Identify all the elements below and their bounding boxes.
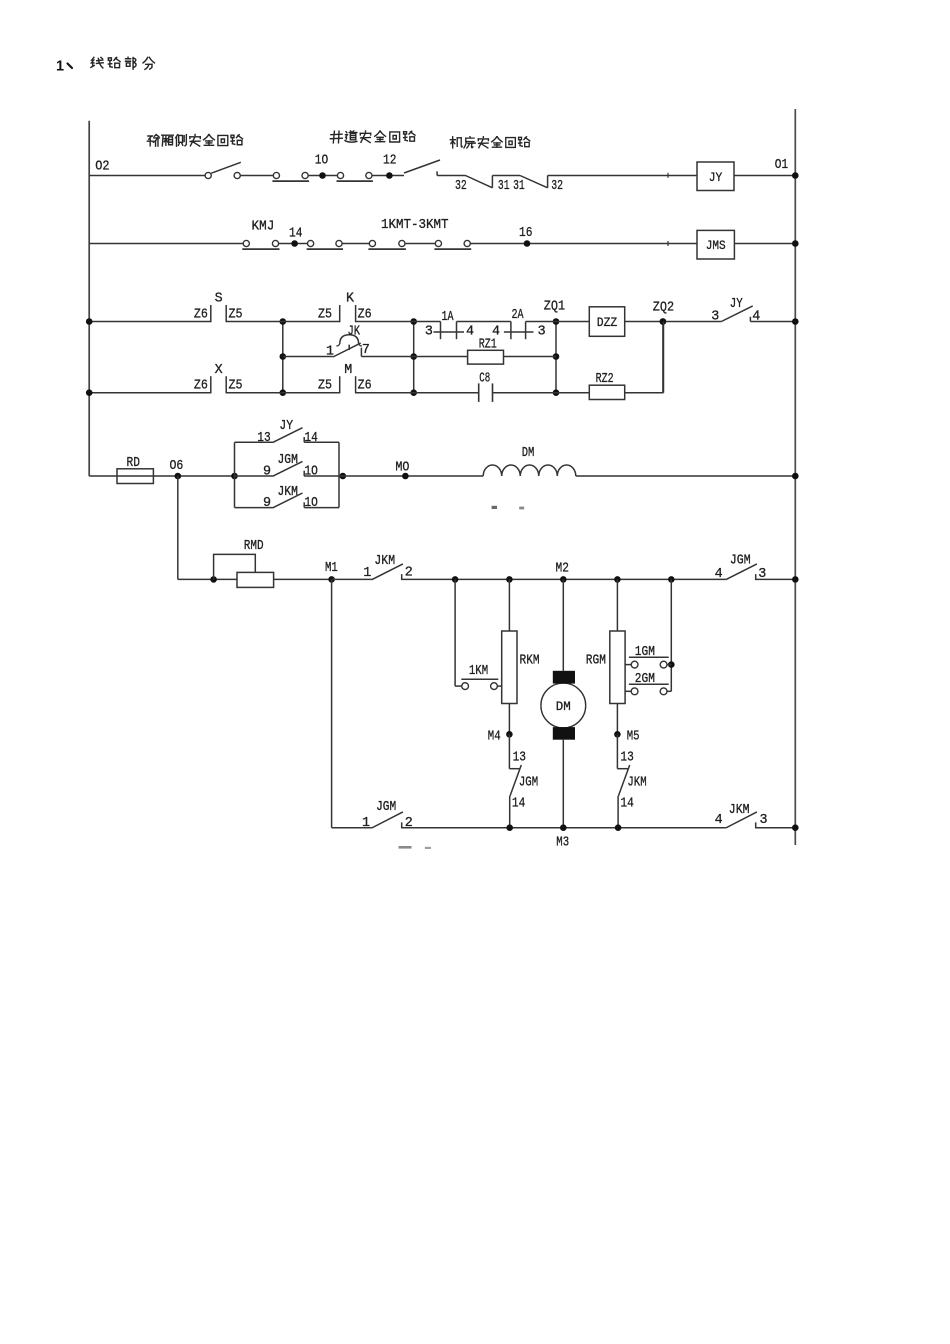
svg-text:Z5: Z5: [318, 379, 332, 394]
svg-text:13: 13: [513, 751, 526, 766]
svg-text:9: 9: [263, 465, 271, 480]
svg-text:3: 3: [711, 310, 719, 325]
svg-text:JGM: JGM: [730, 553, 751, 568]
svg-text:1: 1: [362, 816, 370, 831]
svg-text:O2: O2: [95, 160, 109, 175]
svg-text:Z5: Z5: [229, 379, 243, 394]
svg-text:14: 14: [289, 227, 302, 242]
svg-text:3: 3: [425, 325, 433, 340]
svg-text:16: 16: [519, 226, 532, 241]
svg-text:12: 12: [383, 154, 396, 169]
svg-text:X: X: [215, 363, 223, 378]
svg-text:JY: JY: [730, 297, 743, 312]
svg-text:RMD: RMD: [244, 539, 264, 554]
svg-text:1KMT-3KMT: 1KMT-3KMT: [381, 218, 449, 233]
svg-text:JKM: JKM: [278, 485, 298, 500]
svg-text:1: 1: [326, 345, 334, 360]
svg-text:JMS: JMS: [706, 239, 726, 253]
svg-text:14: 14: [512, 796, 525, 811]
svg-text:ZQ2: ZQ2: [653, 301, 674, 316]
svg-text:JGM: JGM: [376, 800, 396, 815]
svg-text:M5: M5: [627, 730, 640, 745]
svg-text:M4: M4: [488, 730, 501, 745]
svg-text:RGM: RGM: [586, 654, 606, 669]
svg-text:13: 13: [257, 431, 270, 446]
svg-text:32: 32: [455, 179, 467, 194]
svg-text:3: 3: [538, 325, 546, 340]
svg-text:O6: O6: [170, 459, 184, 474]
svg-text:3: 3: [758, 567, 766, 582]
svg-text:31: 31: [513, 179, 525, 194]
svg-text:4: 4: [752, 310, 760, 325]
svg-text:M3: M3: [556, 835, 569, 850]
svg-text:JY: JY: [279, 419, 293, 434]
svg-text:JKM: JKM: [627, 775, 646, 790]
svg-text:4: 4: [466, 325, 474, 340]
svg-text:1GM: 1GM: [635, 645, 655, 660]
svg-text:M: M: [344, 363, 352, 378]
svg-text:14: 14: [620, 796, 633, 811]
svg-text:ZQ1: ZQ1: [544, 300, 565, 315]
svg-text:JGM: JGM: [519, 775, 538, 790]
svg-text:1: 1: [56, 59, 64, 75]
svg-text:2GM: 2GM: [635, 672, 655, 687]
svg-text:1: 1: [363, 566, 371, 581]
svg-text:RZ2: RZ2: [596, 372, 614, 387]
svg-text:4: 4: [492, 325, 500, 340]
svg-text:Z6: Z6: [358, 379, 372, 394]
svg-text:1KM: 1KM: [469, 664, 488, 679]
svg-text:1O: 1O: [315, 154, 328, 169]
svg-text:4: 4: [715, 813, 723, 828]
svg-text:M1: M1: [325, 561, 338, 576]
svg-text:1O: 1O: [304, 496, 317, 511]
svg-text:RZ1: RZ1: [479, 338, 497, 353]
svg-text:K: K: [346, 291, 355, 306]
svg-text:3: 3: [760, 813, 768, 828]
svg-text:13: 13: [620, 751, 633, 766]
svg-text:2A: 2A: [512, 308, 525, 323]
svg-text:KMJ: KMJ: [252, 220, 275, 235]
svg-text:Z6: Z6: [358, 308, 372, 323]
svg-text:4: 4: [715, 567, 723, 582]
svg-text:JY: JY: [709, 171, 723, 185]
svg-text:32: 32: [551, 179, 563, 194]
svg-text:MO: MO: [395, 461, 409, 476]
svg-text:JGM: JGM: [278, 453, 298, 468]
svg-text:Z6: Z6: [194, 308, 208, 323]
svg-text:RKM: RKM: [520, 654, 540, 669]
svg-text:DM: DM: [522, 446, 535, 461]
svg-text:1A: 1A: [442, 310, 455, 325]
svg-text:M2: M2: [556, 561, 569, 576]
svg-text:O1: O1: [775, 158, 788, 173]
svg-text:31: 31: [498, 179, 510, 194]
svg-text:2: 2: [405, 816, 413, 831]
svg-text:9: 9: [263, 496, 271, 511]
svg-text:Z6: Z6: [194, 379, 208, 394]
svg-text:Z5: Z5: [318, 308, 332, 323]
svg-text:2: 2: [405, 566, 413, 581]
svg-text:JKM: JKM: [729, 803, 750, 818]
svg-text:DM: DM: [556, 700, 571, 714]
svg-text:JKM: JKM: [374, 554, 395, 569]
svg-text:DZZ: DZZ: [597, 316, 618, 330]
svg-text:7: 7: [362, 343, 370, 358]
svg-text:C8: C8: [479, 372, 490, 387]
svg-text:RD: RD: [127, 456, 140, 471]
svg-text:14: 14: [304, 431, 317, 446]
svg-text:JK: JK: [348, 325, 361, 340]
svg-text:S: S: [215, 291, 223, 306]
svg-text:1O: 1O: [304, 465, 317, 480]
svg-text:Z5: Z5: [229, 308, 243, 323]
